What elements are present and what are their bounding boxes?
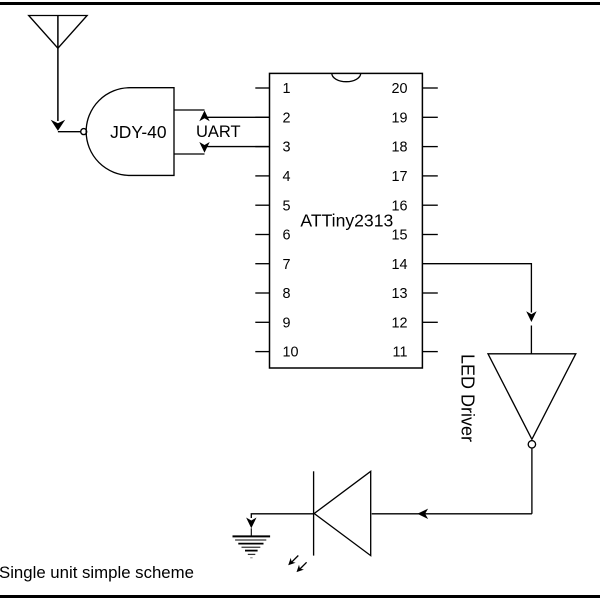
JDY-40 output bubble [81, 129, 87, 135]
pin 6 stub [255, 234, 269, 236]
pin 19 stub [422, 116, 437, 118]
pin 18 stub [422, 146, 437, 148]
svg-text:9: 9 [283, 315, 291, 331]
pin 7 stub [255, 263, 269, 265]
IC notch arc [332, 73, 361, 81]
arrowhead antenna to JDY-40 [51, 120, 65, 131]
svg-text:Single unit simple scheme: Single unit simple scheme [0, 563, 194, 582]
arrowhead down at ground [246, 518, 256, 529]
wire JDY-40 input stub top [174, 109, 205, 111]
ground symbol GND hatched lines [233, 536, 271, 557]
arrowhead left on wire to LED [417, 509, 428, 519]
wire IC pin 14 to LED driver input [422, 264, 531, 313]
pin 9 stub [255, 321, 269, 323]
svg-text:4: 4 [283, 169, 291, 185]
pin 16 stub [422, 204, 437, 206]
LED light emission arrow 1 [288, 556, 298, 566]
wire JDY-40 input stub bottom [174, 153, 205, 155]
svg-text:7: 7 [283, 257, 291, 273]
svg-text:3: 3 [283, 140, 291, 156]
svg-text:1: 1 [283, 81, 291, 97]
svg-text:ATTiny2313: ATTiny2313 [300, 211, 393, 231]
svg-text:14: 14 [391, 257, 407, 273]
pin 12 stub [422, 321, 437, 323]
arrowhead down on pin14 wire [526, 311, 536, 322]
pin 20 stub [422, 87, 437, 89]
svg-text:10: 10 [283, 345, 299, 361]
svg-text:LED Driver: LED Driver [457, 354, 477, 442]
svg-text:13: 13 [391, 286, 407, 302]
arrowhead down at JDY-40 bottom input [199, 142, 209, 153]
pin 8 stub [255, 292, 269, 294]
pin 17 stub [422, 175, 437, 177]
JDY-40 module U2 (NAND gate shape, mirrored) [86, 88, 174, 176]
svg-text:20: 20 [391, 81, 407, 97]
wire IC pin 3 to JDY-40 (TXD) [205, 147, 270, 149]
wire antenna output to JDY-40 bubble [58, 131, 81, 133]
pin 10 stub [255, 351, 269, 353]
pin 13 stub [422, 292, 437, 294]
svg-text:16: 16 [391, 198, 407, 214]
svg-text:15: 15 [391, 228, 407, 244]
svg-text:JDY-40: JDY-40 [110, 122, 166, 142]
LED D1 triangle [314, 471, 371, 555]
pin 5 stub [255, 204, 269, 206]
pin 15 stub [422, 234, 437, 236]
svg-text:5: 5 [283, 198, 291, 214]
svg-text:2: 2 [283, 110, 291, 126]
LED light emission arrow 2 [297, 562, 307, 572]
pin 11 stub [422, 351, 437, 353]
LED driver output bubble [528, 441, 535, 448]
svg-text:UART: UART [196, 123, 241, 141]
LED driver inverter U3 triangle [488, 354, 576, 440]
wire LED driver output down [531, 448, 533, 514]
svg-text:17: 17 [391, 169, 407, 185]
wire arrow to LED driver input stub [530, 326, 532, 354]
pin 4 stub [255, 175, 269, 177]
svg-text:6: 6 [283, 228, 291, 244]
IC U1 ATTiny2313 body [270, 73, 423, 368]
antenna ANT1 [29, 16, 87, 122]
svg-text:8: 8 [283, 286, 291, 302]
arrowhead up at JDY-40 top input [199, 111, 209, 122]
top border bar [0, 2, 600, 5]
pin 3 stub [255, 146, 269, 148]
pin 2 stub [255, 116, 269, 118]
wire IC pin 2 to JDY-40 (RXD) [205, 113, 270, 117]
svg-text:18: 18 [391, 140, 407, 156]
LED D1 cathode bar [313, 471, 315, 555]
svg-text:12: 12 [391, 315, 407, 331]
bottom border bar [0, 595, 600, 598]
svg-text:19: 19 [391, 110, 407, 126]
pin 1 stub [255, 87, 269, 89]
wire LED driver output to LED anode [372, 513, 532, 515]
svg-text:11: 11 [393, 345, 408, 361]
wire LED cathode to ground [251, 514, 313, 518]
ground symbol stem [250, 528, 252, 536]
